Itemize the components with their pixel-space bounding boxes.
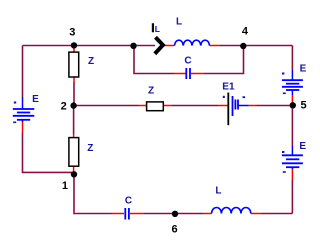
svg-text:3: 3 [69, 26, 75, 38]
svg-text:L: L [176, 16, 182, 27]
svg-text:E: E [300, 64, 307, 75]
svg-text:6: 6 [171, 223, 177, 235]
svg-text:E: E [299, 141, 306, 152]
svg-text:Z: Z [88, 56, 94, 67]
svg-text:1: 1 [62, 180, 68, 192]
svg-text:L: L [155, 24, 160, 34]
svg-text:4: 4 [242, 26, 249, 38]
svg-text:5: 5 [301, 100, 307, 112]
svg-text:C: C [184, 56, 191, 67]
svg-text:E: E [32, 94, 39, 105]
svg-text:E1: E1 [222, 82, 235, 93]
svg-text:C: C [125, 196, 132, 207]
svg-text:Z: Z [87, 143, 93, 154]
svg-text:L: L [215, 186, 221, 197]
svg-text:2: 2 [61, 100, 67, 112]
svg-text:Z: Z [148, 85, 154, 96]
